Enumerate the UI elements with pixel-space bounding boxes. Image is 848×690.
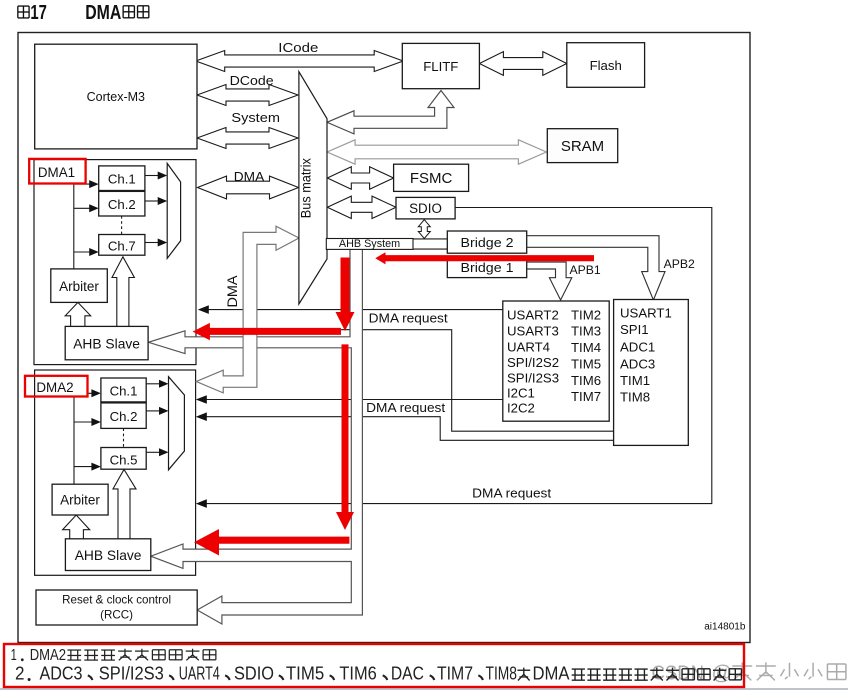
hollow arrow AHB-slave to arbiter (DMA1) bbox=[65, 302, 91, 326]
svg-text:SDIO: SDIO bbox=[409, 201, 442, 216]
wire DMA2 channel input bus bbox=[74, 393, 92, 484]
svg-text:2: 2 bbox=[15, 664, 25, 684]
bus arrow FLITF-Flash bbox=[479, 52, 566, 76]
arrowhead into DMA2 (SDIO request) bbox=[196, 499, 207, 508]
arrowhead Ch.1 out (DMA2) bbox=[159, 380, 169, 388]
svg-text:17: 17 bbox=[30, 1, 47, 24]
arrowhead into Ch.5 (DMA2) bbox=[91, 463, 101, 471]
svg-text:DMA: DMA bbox=[225, 275, 240, 307]
svg-text:AHB Slave: AHB Slave bbox=[73, 336, 140, 351]
box Ch.2 (DMA1) bbox=[99, 191, 145, 216]
svg-text:(RCC): (RCC) bbox=[100, 609, 133, 622]
box Ch.7 (DMA1) bbox=[99, 235, 145, 256]
svg-text:ADC3: ADC3 bbox=[40, 664, 83, 684]
bus arrow ICode bbox=[196, 51, 404, 72]
wire DMA request APB2-to-DMA2 bbox=[204, 417, 614, 441]
svg-text:Flash: Flash bbox=[590, 58, 622, 73]
svg-text:DMA2: DMA2 bbox=[36, 380, 73, 395]
svg-text:Cortex-M3: Cortex-M3 bbox=[87, 90, 145, 104]
box SRAM bbox=[547, 129, 617, 163]
svg-text:TIM6: TIM6 bbox=[339, 664, 376, 684]
svg-text:DMA: DMA bbox=[234, 169, 265, 184]
bus arrow System bbox=[197, 128, 298, 149]
svg-text:AHB System: AHB System bbox=[339, 238, 400, 250]
arrowhead into Ch.1 (DMA2) bbox=[91, 389, 101, 397]
pipe bus matrix to SRAM (hollow double arrow) bbox=[327, 140, 546, 164]
mux trapezoid (DMA2) bbox=[169, 377, 185, 470]
box DMA2 container bbox=[35, 370, 196, 575]
svg-text:FLITF: FLITF bbox=[423, 59, 458, 74]
svg-text:DMA request: DMA request bbox=[366, 400, 445, 415]
title figure number 图17 bbox=[18, 5, 29, 7]
red arrow left into AHB Slave DMA1 bbox=[193, 323, 341, 340]
svg-text:Arbiter: Arbiter bbox=[59, 279, 99, 294]
svg-text:DMA1: DMA1 bbox=[38, 165, 75, 180]
svg-text:Bridge 2: Bridge 2 bbox=[461, 236, 514, 250]
box SDIO bbox=[396, 197, 455, 219]
bottom page separator line bbox=[0, 688, 848, 690]
wire DMA request APB1-to-DMA1 bbox=[206, 309, 503, 311]
box Flash bbox=[567, 43, 645, 88]
red arrow down (AHB system to DMA1 slave) bbox=[336, 258, 355, 332]
arrowhead into DMA2 (APB1 request) bbox=[196, 395, 207, 404]
arrowhead into DMA2 (APB2 request) bbox=[196, 412, 207, 421]
svg-text:TIM2: TIM2 bbox=[571, 308, 601, 323]
pipe bus matrix to FLITF (hollow) bbox=[327, 91, 454, 134]
svg-text:I2C2: I2C2 bbox=[507, 401, 535, 416]
bus arrow DMA1 master bbox=[198, 176, 299, 199]
svg-text:Ch.1: Ch.1 bbox=[108, 171, 136, 186]
wire DMA request APB2-to-DMA1 bbox=[206, 330, 614, 432]
arrowhead Ch.2 out (DMA1) bbox=[158, 197, 168, 205]
svg-text:I2C1: I2C1 bbox=[507, 386, 535, 401]
wire DMA request SDIO-to-DMA2 bbox=[204, 208, 712, 504]
arrowhead into Ch.2 (DMA1) bbox=[89, 204, 99, 212]
box Arbiter (DMA2) bbox=[52, 484, 108, 515]
svg-text:TIM6: TIM6 bbox=[571, 373, 601, 388]
arrowhead Ch.2 out (DMA2) bbox=[159, 407, 169, 415]
svg-text:AHB Slave: AHB Slave bbox=[75, 548, 142, 563]
svg-text:SRAM: SRAM bbox=[561, 138, 604, 155]
wire AHB system to Bridge2 (top) bbox=[413, 238, 447, 240]
svg-text:TIM4: TIM4 bbox=[571, 340, 601, 355]
bus arrow FSMC bbox=[327, 167, 393, 189]
svg-text:Ch.5: Ch.5 bbox=[110, 452, 138, 467]
bus matrix polygon bbox=[299, 72, 327, 304]
box AHB Slave (DMA2) bbox=[65, 539, 150, 571]
bus arrow SDIO bbox=[327, 196, 396, 218]
svg-text:DCode: DCode bbox=[230, 73, 274, 88]
wire Ch.5 to mux (DMA2) bbox=[146, 451, 159, 453]
box Ch.1 (DMA2) bbox=[101, 378, 146, 402]
arrowhead into Ch.7 (DMA1) bbox=[89, 248, 99, 256]
svg-text:USART1: USART1 bbox=[620, 306, 672, 321]
box AHB System label bbox=[326, 239, 413, 250]
svg-text:TIM1: TIM1 bbox=[620, 373, 650, 388]
svg-text:SPI1: SPI1 bbox=[620, 322, 649, 337]
svg-text:TIM5: TIM5 bbox=[571, 357, 601, 372]
wire Ch.1 to mux (DMA1) bbox=[145, 175, 158, 177]
arrowhead Ch.5 out (DMA2) bbox=[159, 448, 169, 456]
svg-text:1: 1 bbox=[11, 647, 17, 664]
arrowhead into Ch.2 (DMA2) bbox=[91, 418, 101, 426]
svg-text:ai14801b: ai14801b bbox=[704, 622, 746, 633]
red arrow left (AHB system from bridges) bbox=[375, 252, 594, 264]
box APB2 peripherals bbox=[614, 300, 689, 446]
mux trapezoid (DMA1) bbox=[167, 163, 180, 258]
wire Ch.1 to mux (DMA2) bbox=[146, 383, 159, 385]
wire Ch.2 to mux (DMA2) bbox=[146, 410, 159, 412]
svg-text:UART4: UART4 bbox=[179, 664, 220, 684]
box Reset & clock control (RCC) bbox=[36, 590, 197, 625]
svg-text:Bridge 1: Bridge 1 bbox=[461, 261, 514, 275]
pipe DMA2 master to bus matrix (hollow) bbox=[196, 226, 299, 393]
svg-text:APB1: APB1 bbox=[570, 263, 601, 277]
box FLITF bbox=[402, 43, 479, 88]
diagram outer border bbox=[18, 33, 750, 643]
red highlight box DMA2 bbox=[25, 376, 88, 397]
svg-text:TIM8: TIM8 bbox=[620, 390, 650, 405]
pipe Bridge2 to APB2 peripherals bbox=[527, 236, 665, 300]
svg-text:SPI/I2S3: SPI/I2S3 bbox=[507, 371, 559, 386]
svg-text:SDIO: SDIO bbox=[234, 664, 274, 684]
wire DMA1 channel input bus bbox=[74, 184, 90, 269]
svg-text:Ch.7: Ch.7 bbox=[108, 238, 136, 253]
box Ch.5 (DMA2) bbox=[101, 448, 146, 470]
box Cortex-M3 bbox=[35, 44, 197, 149]
svg-text:ADC3: ADC3 bbox=[620, 357, 655, 372]
arrowhead into DMA1 (APB1 request) bbox=[198, 305, 209, 314]
red arrow left into AHB Slave DMA2 bbox=[194, 529, 349, 556]
svg-text:USART3: USART3 bbox=[507, 324, 559, 339]
box Bridge 1 bbox=[447, 258, 526, 278]
wire Ch.2 to mux (DMA1) bbox=[145, 200, 158, 202]
svg-text:USART2: USART2 bbox=[507, 308, 559, 323]
dashed ellipsis Ch.2..Ch.7 (DMA1) bbox=[121, 216, 123, 235]
svg-text:DMA: DMA bbox=[85, 1, 121, 24]
box Bridge 2 bbox=[447, 231, 526, 253]
svg-text:SPI/I2S3: SPI/I2S3 bbox=[99, 664, 164, 684]
svg-text:TIM5: TIM5 bbox=[286, 664, 324, 684]
svg-text:TIM7: TIM7 bbox=[571, 389, 601, 404]
svg-text:DMA request: DMA request bbox=[369, 311, 448, 326]
pipe AHB-System to AHB-Slaves and RCC (hollow bus) bbox=[148, 249, 362, 624]
red arrow down (AHB system to DMA2 slave) bbox=[336, 344, 354, 530]
svg-text:CSDN: CSDN bbox=[652, 662, 705, 685]
box Ch.2 (DMA2) bbox=[101, 403, 146, 429]
svg-text:TIM8: TIM8 bbox=[486, 664, 518, 684]
svg-text:System: System bbox=[231, 110, 280, 125]
bus arrow DCode bbox=[197, 85, 298, 106]
arrowhead into DMA1 (APB2 request) bbox=[198, 325, 209, 334]
dashed ellipsis Ch.2..Ch.5 (DMA2) bbox=[123, 428, 125, 447]
box APB1 peripherals bbox=[503, 301, 609, 421]
svg-text:DMA: DMA bbox=[533, 664, 570, 684]
svg-text:ADC1: ADC1 bbox=[620, 340, 655, 355]
pipe Bridge1 to APB1 peripherals bbox=[527, 262, 572, 300]
svg-text:APB2: APB2 bbox=[664, 257, 695, 271]
svg-text:Ch.1: Ch.1 bbox=[110, 383, 138, 398]
arrowhead Ch.1 out (DMA1) bbox=[158, 172, 168, 180]
svg-text:FSMC: FSMC bbox=[410, 170, 453, 187]
hollow arrow AHB-slave to channels (DMA2) bbox=[113, 470, 136, 539]
svg-text:SPI/I2S2: SPI/I2S2 bbox=[507, 355, 559, 370]
hollow arrow AHB-slave to channels (DMA1) bbox=[112, 257, 134, 327]
svg-text:DMA request: DMA request bbox=[472, 486, 551, 501]
wire DMA request APB1-to-DMA2 bbox=[204, 399, 503, 401]
wire Ch.7 to mux (DMA1) bbox=[145, 242, 158, 244]
svg-text:Ch.2: Ch.2 bbox=[108, 197, 136, 212]
arrowhead into Ch.1 (DMA1) bbox=[89, 180, 99, 188]
red note border box bbox=[4, 644, 744, 687]
svg-text:Reset & clock control: Reset & clock control bbox=[62, 594, 171, 607]
red highlight box DMA1 bbox=[29, 159, 85, 184]
svg-text:Bus matrix: Bus matrix bbox=[299, 158, 314, 218]
box FSMC bbox=[394, 164, 469, 191]
svg-text:DMA2: DMA2 bbox=[30, 647, 66, 664]
svg-text:ICode: ICode bbox=[278, 40, 318, 55]
svg-text:TIM7: TIM7 bbox=[437, 664, 473, 684]
box DMA1 container bbox=[34, 160, 196, 365]
box Ch.1 (DMA1) bbox=[99, 166, 145, 191]
arrowhead Ch.7 out (DMA1) bbox=[158, 239, 168, 247]
svg-text:UART4: UART4 bbox=[507, 340, 550, 355]
bus arrow SDIO to AHB system (vertical) bbox=[418, 220, 430, 239]
svg-text:Arbiter: Arbiter bbox=[60, 492, 100, 507]
wire AHB system to Bridge2 (bottom) bbox=[413, 248, 447, 250]
svg-text:TIM3: TIM3 bbox=[571, 324, 601, 339]
box Arbiter (DMA1) bbox=[51, 269, 108, 303]
box AHB Slave (DMA1) bbox=[65, 326, 148, 359]
svg-text:DAC: DAC bbox=[391, 664, 424, 684]
svg-text:Ch.2: Ch.2 bbox=[110, 409, 138, 424]
hollow arrow AHB-slave to arbiter (DMA2) bbox=[63, 515, 90, 539]
